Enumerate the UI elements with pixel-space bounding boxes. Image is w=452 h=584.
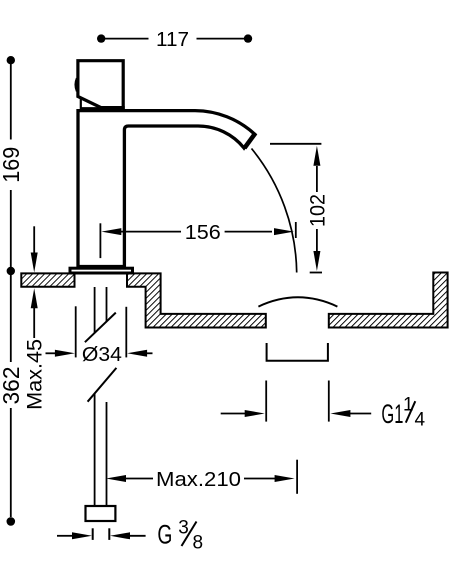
- svg-text:Max.210: Max.210: [156, 468, 241, 491]
- svg-text:G1: G1: [381, 399, 403, 429]
- svg-text:169: 169: [0, 147, 24, 183]
- svg-text:8: 8: [193, 532, 204, 553]
- svg-text:156: 156: [185, 221, 221, 244]
- svg-text:102: 102: [307, 194, 330, 227]
- svg-text:G: G: [157, 520, 172, 550]
- svg-text:1: 1: [403, 394, 414, 415]
- svg-text:362: 362: [0, 367, 24, 405]
- svg-text:4: 4: [415, 410, 426, 431]
- svg-text:Max.45: Max.45: [24, 339, 47, 410]
- svg-text:Ø34: Ø34: [82, 343, 122, 366]
- svg-text:117: 117: [156, 28, 189, 51]
